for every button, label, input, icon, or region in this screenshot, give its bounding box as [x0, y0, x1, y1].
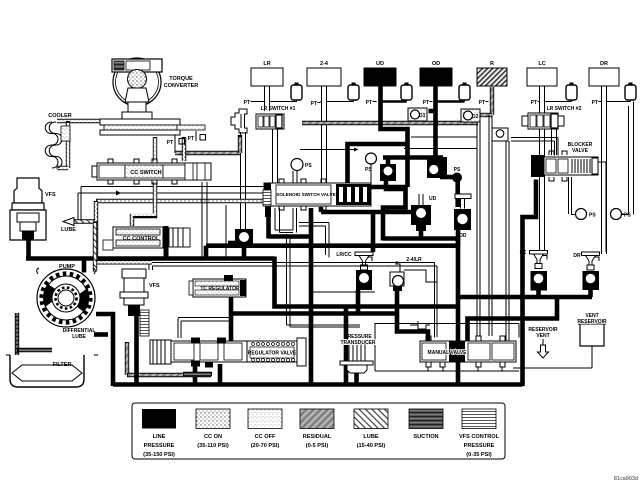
node LR: [251, 61, 283, 86]
wire run A drop to manual valve: [456, 238, 461, 342]
torque converter base stack: [100, 119, 205, 135]
2-4/LR solenoid: [390, 257, 422, 291]
LR switch 2: [522, 113, 564, 129]
svg-text:LR/CC: LR/CC: [336, 252, 352, 258]
svg-text:VALVE: VALVE: [572, 148, 589, 154]
legend swatch residual: [300, 409, 334, 429]
PS circle 2: [365, 153, 377, 173]
svg-text:LR: LR: [263, 61, 270, 67]
accumulator UD: [401, 83, 412, 101]
wire branch y=318.5 to manual valve: [468, 297, 558, 343]
wire blocker right out: [598, 162, 606, 252]
wire cooler dotted top channel: [57, 121, 112, 168]
wire S1 zigzag drop: [383, 178, 406, 241]
wire VFS mid drop: [134, 316, 139, 384]
svg-text:VFS: VFS: [149, 283, 160, 289]
svg-text:VFS CONTROL: VFS CONTROL: [459, 434, 500, 440]
wire solenoid-switch-valve right feed: [371, 185, 408, 190]
svg-text:81ca903d: 81ca903d: [614, 476, 638, 482]
wire residual channel to LR SW1: [175, 135, 240, 153]
wire right riser V_R: [523, 180, 537, 387]
svg-text:PS: PS: [624, 213, 631, 219]
node UD: [364, 61, 396, 86]
wire UD box stem thick: [381, 86, 408, 187]
solenoid S1 (UD path): [380, 164, 396, 181]
wire LC solenoid drop: [536, 290, 541, 297]
wire pump feed from B1: [82, 259, 87, 273]
regulator valve: [150, 338, 306, 368]
wire 2-4/LR solenoid drop: [397, 290, 428, 342]
wire reservoir vent stem: [542, 339, 544, 345]
wire main bus B1 y=258.5: [26, 256, 275, 261]
accumulator 2-4: [348, 83, 359, 101]
svg-text:(35-150 PSI): (35-150 PSI): [143, 452, 175, 458]
svg-text:PS: PS: [305, 163, 312, 169]
svg-text:DR: DR: [600, 61, 608, 67]
wire DR solenoid drop: [588, 290, 593, 297]
wire DR acc right drop: [622, 102, 634, 215]
wire 2-4LR valve side lines: [404, 270, 437, 322]
wire VFS control channel pair: [149, 263, 437, 338]
wire suction channel filter to pump: [17, 313, 52, 358]
wire CC control black bar: [164, 226, 169, 258]
svg-text:PRESSURE: PRESSURE: [144, 443, 175, 449]
small relief valve near manual valve: [410, 321, 430, 333]
PS circle 1: [291, 159, 312, 171]
svg-text:(20-70 PSI): (20-70 PSI): [251, 443, 280, 449]
wire run B drop to B1: [204, 246, 209, 259]
svg-text:PT: PT: [188, 136, 194, 142]
wire UD solenoid drop: [419, 225, 424, 239]
PT labels top row: [244, 100, 598, 107]
wire TC regulator drop x=231: [229, 295, 234, 342]
wire LR stem: [255, 86, 297, 111]
wire run B y=245.7: [206, 243, 458, 248]
lube arrow: [63, 218, 74, 226]
check valve D1: [408, 108, 427, 121]
CC switch valve: [92, 159, 211, 184]
wire manual valve frame: [312, 292, 519, 371]
wire 2-4 stem: [321, 86, 354, 184]
wire LR/CC funnel feed: [371, 212, 376, 252]
legend swatch cc off: [248, 409, 282, 429]
svg-text:CC ON: CC ON: [204, 434, 222, 440]
svg-text:PRESSURE: PRESSURE: [464, 443, 495, 449]
svg-text:CONVERTER: CONVERTER: [164, 83, 199, 89]
svg-text:LC: LC: [538, 61, 545, 67]
wire y=149 thin with arrow: [300, 148, 359, 152]
svg-text:UD: UD: [376, 61, 384, 67]
node DR: [589, 61, 619, 86]
svg-text:2-4: 2-4: [320, 61, 329, 67]
wire CC-ON dotted frame: [96, 201, 264, 262]
svg-text:PT: PT: [423, 100, 429, 106]
VFS center: [120, 269, 149, 336]
wire regulator valve bottom drops: [195, 364, 220, 385]
wire SSV left end drop: [266, 214, 271, 239]
svg-text:CC OFF: CC OFF: [255, 434, 276, 440]
svg-text:LC: LC: [520, 250, 527, 256]
wire VFS-left drop to B1: [26, 240, 31, 260]
PS pressure switch filled: [452, 167, 462, 183]
wire run y=157.5: [383, 155, 443, 160]
wire OD solenoid drop: [456, 230, 461, 246]
TC regulator: [189, 275, 246, 297]
svg-text:PUMP: PUMP: [59, 264, 75, 270]
svg-text:PT: PT: [366, 100, 372, 106]
wire LR SW2 to blocker valve: [552, 129, 557, 155]
wire PS2 stub: [370, 164, 372, 184]
wire riser x=311: [309, 208, 314, 385]
wire thin links D1 to R line: [404, 137, 477, 149]
wire thin y=186/193 with arrow: [78, 187, 264, 222]
node LC: [527, 61, 557, 86]
legend swatch lube: [354, 409, 388, 429]
svg-text:PT: PT: [531, 100, 537, 106]
wire residual channel pump area: [127, 342, 211, 375]
wire LR SW1 to SSV drop: [273, 129, 278, 184]
svg-text:PS: PS: [589, 213, 596, 219]
ball check on R line: [492, 128, 508, 141]
svg-text:PS: PS: [454, 167, 461, 173]
wire SSV bottom thin drops: [275, 208, 360, 327]
wire LR/CC solenoid drop: [356, 290, 361, 314]
wire bus H_b y=313.5: [230, 311, 397, 316]
PS circle 4: [611, 209, 632, 220]
wire OD acc link: [436, 100, 465, 102]
wire DR stem: [602, 86, 631, 254]
LR/CC solenoid: [336, 252, 373, 290]
svg-text:(15-40 PSI): (15-40 PSI): [357, 443, 386, 449]
wire run y=212 SSV to UD solenoid: [321, 207, 413, 212]
solenoid S2 (OD path): [427, 157, 447, 178]
wire S2 top feed: [431, 158, 436, 166]
svg-text:DR: DR: [573, 253, 581, 259]
svg-text:COOLER: COOLER: [48, 113, 72, 119]
accumulator OD: [459, 83, 470, 101]
svg-text:PT: PT: [244, 100, 250, 106]
accumulator LR: [291, 83, 302, 101]
VFS left: [10, 178, 46, 240]
PT connector boxes: [179, 135, 206, 145]
LR switch 1: [231, 109, 284, 133]
manual valve: [420, 336, 516, 367]
cooler: [45, 122, 70, 168]
wire PT tees under torque converter: [175, 131, 196, 153]
svg-text:UD: UD: [429, 196, 437, 202]
wire PS to OD solenoid drop: [455, 181, 460, 207]
svg-text:LUBE: LUBE: [61, 227, 76, 233]
wire LR solenoid lower drop: [242, 247, 247, 258]
node OD: [420, 61, 452, 86]
svg-text:D1: D1: [419, 113, 426, 119]
wire pump outlet drop: [96, 314, 113, 386]
svg-text:(0-35 PSI): (0-35 PSI): [466, 452, 492, 458]
svg-text:TRANSDUCER: TRANSDUCER: [341, 340, 376, 346]
svg-text:LR SWITCH #2: LR SWITCH #2: [547, 106, 582, 112]
vent reservoir: [577, 313, 607, 346]
svg-text:SUCTION: SUCTION: [413, 434, 438, 440]
svg-text:SOLENOID SWITCH VALVE: SOLENOID SWITCH VALVE: [276, 192, 335, 197]
PS circle 3: [576, 209, 597, 220]
reservoir vent arrow: [528, 327, 558, 358]
DR solenoid: [573, 252, 599, 290]
wire CC switch dotted risers: [155, 137, 184, 161]
legend swatch cc on: [196, 409, 230, 429]
check valve D2: [461, 109, 480, 122]
wire OD stem D1 tick: [429, 109, 436, 114]
wire R stem hatched: [480, 87, 492, 115]
svg-text:OD: OD: [432, 61, 440, 67]
wire S1 top feed: [386, 158, 391, 166]
wire PS1 stub: [293, 171, 297, 184]
wire R line to blocker valve: [511, 138, 558, 156]
CC control valve: [103, 226, 190, 259]
suction stub under regulator: [183, 372, 212, 376]
wire differential lube stub: [94, 332, 108, 337]
PT tick marks: [251, 102, 602, 103]
wire PS3 link: [569, 177, 576, 215]
wire LR SW2 drop to LC funnel: [540, 129, 545, 252]
svg-text:PT: PT: [479, 100, 485, 106]
node R: [477, 61, 507, 86]
svg-text:PT: PT: [167, 140, 173, 146]
solenoid switch valve: [263, 179, 371, 217]
wire right triple verticals: [477, 115, 509, 360]
wire OD box stem thick: [433, 86, 438, 157]
svg-text:LUBE: LUBE: [72, 334, 86, 340]
wire LR solenoid left stub: [228, 241, 236, 246]
filter: [6, 355, 98, 387]
svg-text:CC CONTROL: CC CONTROL: [123, 236, 160, 242]
UD solenoid: [411, 194, 437, 231]
svg-text:LINE: LINE: [153, 434, 166, 440]
pressure transducer: [340, 334, 376, 373]
pump: [37, 268, 96, 327]
wire bus H_a y=306.5: [275, 257, 459, 307]
svg-text:FILTER: FILTER: [53, 362, 72, 368]
svg-text:2-4/LR: 2-4/LR: [406, 257, 422, 263]
wire LC-DR bottom run y=297: [458, 295, 592, 300]
wire LR bracket drop to solenoid: [241, 132, 246, 231]
wire pressure transducer drop: [354, 371, 359, 384]
legend labels: [143, 434, 499, 458]
wire CC switch dotted drop to CC control: [132, 182, 155, 226]
accumulator DR: [625, 83, 636, 101]
OD solenoid: [454, 194, 471, 239]
legend swatch vfs control: [462, 409, 496, 429]
svg-text:REGULATOR VALVE: REGULATOR VALVE: [248, 351, 297, 357]
wire manual valve to B2: [456, 360, 461, 386]
wire residual channel y=123: [302, 121, 478, 125]
wire run y=236.5: [269, 234, 313, 239]
torque converter: [112, 58, 162, 119]
svg-text:LUBE: LUBE: [363, 434, 378, 440]
wire CC switch right drops: [202, 182, 226, 258]
wire run A y=238.5: [383, 236, 458, 241]
svg-text:RESIDUAL: RESIDUAL: [303, 434, 332, 440]
node 2-4: [307, 61, 341, 86]
solenoid at LR line: [235, 229, 253, 248]
wire SSV top riser and y=144 run: [348, 144, 408, 184]
svg-text:TORQUE: TORQUE: [169, 76, 193, 82]
wire vent reservoir line: [513, 346, 592, 368]
wire lube arrow channel: [74, 222, 95, 272]
svg-text:VFS: VFS: [45, 192, 56, 198]
svg-text:R: R: [490, 61, 494, 67]
wire PS4 link: [622, 213, 624, 215]
svg-text:VENT: VENT: [536, 333, 549, 339]
svg-text:(35-110 PSI): (35-110 PSI): [197, 443, 229, 449]
svg-text:LR SWITCH #1: LR SWITCH #1: [261, 106, 296, 112]
LC solenoid: [520, 250, 548, 291]
svg-text:(0-5 PSI): (0-5 PSI): [306, 443, 329, 449]
accumulator LC: [566, 83, 577, 101]
wire bottom bus B2 y=384.5: [113, 382, 523, 387]
svg-text:PT: PT: [592, 100, 598, 106]
legend swatch suction: [409, 409, 443, 429]
svg-text:PS: PS: [365, 167, 372, 173]
legend swatch line pressure: [142, 409, 176, 429]
svg-text:MANUAL VALVE: MANUAL VALVE: [428, 350, 468, 356]
svg-text:RESERVOIR: RESERVOIR: [577, 319, 607, 325]
wire LC stem: [540, 86, 572, 114]
wire regulator valve thin feed: [178, 318, 231, 339]
svg-text:CC SWITCH: CC SWITCH: [130, 170, 161, 176]
blocker valve: [531, 151, 598, 181]
wire H_a drop x=346: [344, 307, 349, 385]
svg-text:PT: PT: [311, 101, 317, 107]
wire UD acc link: [381, 100, 407, 102]
svg-text:D2: D2: [472, 114, 479, 120]
wire S2 to PS link: [440, 175, 454, 180]
svg-text:OD: OD: [459, 233, 467, 239]
svg-text:TC REGULATOR: TC REGULATOR: [200, 286, 240, 292]
